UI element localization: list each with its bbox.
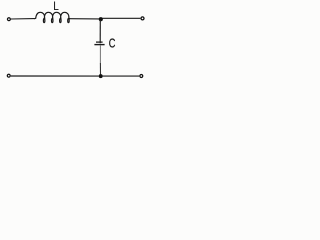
node junction top — [99, 17, 103, 21]
terminal bottom-right — [140, 75, 143, 78]
terminal top-right — [141, 17, 144, 20]
background — [0, 0, 154, 87]
wire node to top-right terminal — [103, 17, 141, 19]
capacitor lower stem wire upper part — [99, 45, 101, 63]
capacitor lower stem wire lower part — [99, 63, 101, 75]
capacitor bottom plate — [94, 44, 104, 46]
wire bottom-right segment — [103, 75, 140, 77]
svg-text:C: C — [109, 37, 116, 51]
terminal top-left — [7, 18, 10, 21]
capacitor top plate — [96, 41, 103, 43]
wire inductor to node — [69, 18, 99, 20]
capacitor upper stem wire — [99, 20, 101, 43]
svg-text:L: L — [53, 0, 59, 13]
inductor L coil — [34, 12, 70, 22]
wire bottom-left segment — [11, 75, 99, 77]
node junction bottom — [99, 74, 103, 78]
wire top-left segment — [11, 18, 35, 20]
terminal bottom-left — [7, 74, 10, 77]
